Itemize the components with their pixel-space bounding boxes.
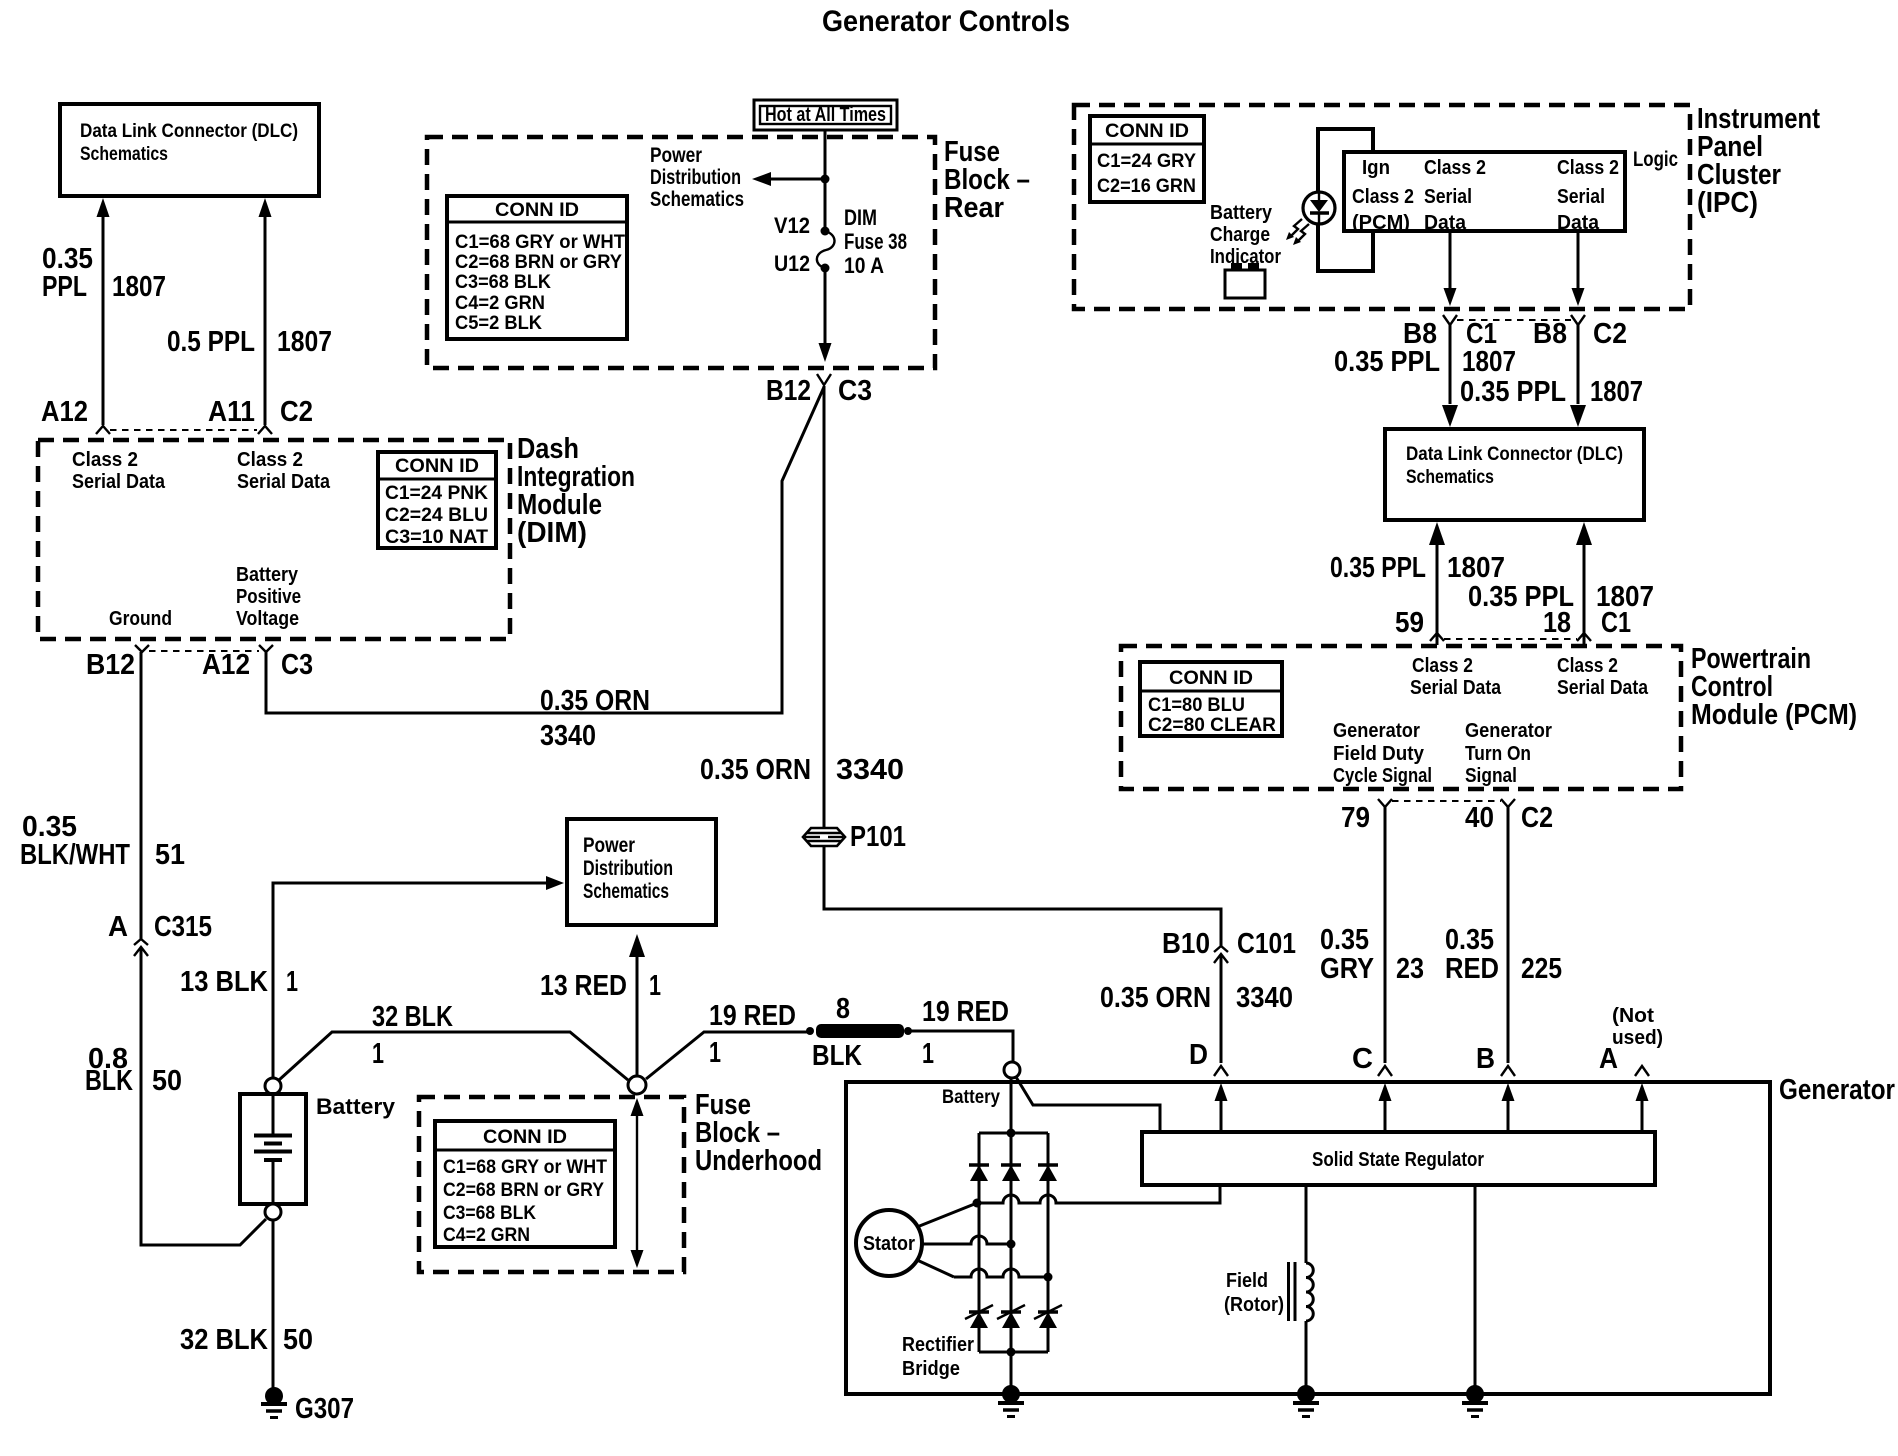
svg-text:40: 40 xyxy=(1465,802,1494,834)
svg-text:C1=68 GRY or WHT: C1=68 GRY or WHT xyxy=(443,1157,607,1178)
svg-text:(PCM): (PCM) xyxy=(1352,212,1410,234)
svg-text:Serial: Serial xyxy=(1557,186,1605,208)
svg-text:BLK: BLK xyxy=(85,1065,133,1097)
svg-text:V12: V12 xyxy=(774,213,810,238)
svg-text:C3=10 NAT: C3=10 NAT xyxy=(385,527,488,548)
svg-text:Class 2: Class 2 xyxy=(1412,655,1473,677)
svg-text:Battery: Battery xyxy=(942,1087,1000,1108)
node: generator battery terminal xyxy=(942,1062,1020,1108)
wire: 0.35 PPL 1807 down to DLC (C2) xyxy=(1570,325,1586,427)
svg-text:Rectifier: Rectifier xyxy=(902,1334,974,1356)
label: 13 RED 1 xyxy=(540,970,661,1002)
svg-text:Voltage: Voltage xyxy=(236,608,299,630)
wire: regulator to terminal A arrow (not used) xyxy=(1636,1083,1649,1132)
svg-text:Stator: Stator xyxy=(863,1233,915,1255)
label: 0.35 PPL 1807 (59 wire) xyxy=(1330,552,1505,584)
connector: B10 / C101 inline xyxy=(1162,928,1296,963)
table: IPC CONN ID xyxy=(1090,116,1204,202)
wire: IPC Class 2 serial data out (C2) xyxy=(1572,231,1585,306)
svg-text:Positive: Positive xyxy=(236,586,301,608)
svg-text:C3: C3 xyxy=(281,649,313,681)
diode: lower 3 (avalanche) xyxy=(1034,1305,1062,1328)
wire: Class 2 Serial Data, DIM A12 to DLC (0.35 PPL 1807) xyxy=(97,198,110,425)
svg-text:32 BLK: 32 BLK xyxy=(180,1324,268,1356)
node: battery negative terminal xyxy=(265,1204,281,1220)
svg-text:Data: Data xyxy=(1424,212,1467,234)
svg-text:A12: A12 xyxy=(41,396,88,428)
rectifier bridge: top bus xyxy=(979,1129,1048,1138)
ground: regulator to case xyxy=(1462,1385,1488,1417)
wire: battery feed from Hot at All Times into fuse xyxy=(824,130,827,229)
pin name: Battery Positive Voltage xyxy=(236,564,301,630)
svg-text:C2: C2 xyxy=(280,396,313,428)
svg-text:Serial Data: Serial Data xyxy=(1410,677,1502,699)
svg-text:CONN ID: CONN ID xyxy=(1105,121,1189,142)
node: battery positive terminal xyxy=(265,1078,281,1094)
label: 0.35 PPL 1807 (C2 wire) xyxy=(1460,376,1643,408)
svg-text:0.35 ORN: 0.35 ORN xyxy=(700,754,811,786)
svg-text:BLK: BLK xyxy=(812,1040,862,1072)
svg-text:C1=68 GRY or WHT: C1=68 GRY or WHT xyxy=(455,232,625,253)
svg-text:1: 1 xyxy=(372,1038,384,1070)
svg-text:Serial Data: Serial Data xyxy=(1557,677,1649,699)
wire: 0.35 RED 225 PCM 40 to generator B xyxy=(1507,807,1510,1063)
svg-text:Data Link Connector (DLC): Data Link Connector (DLC) xyxy=(80,121,298,142)
svg-text:1807: 1807 xyxy=(112,271,166,303)
svg-text:RED: RED xyxy=(1445,953,1499,985)
logic box: Ign Class 2 (PCM) / Class 2 Serial Data xyxy=(1344,152,1625,234)
svg-text:CONN ID: CONN ID xyxy=(483,1127,567,1148)
label: 0.35 PPL 1807 (18 wire) xyxy=(1468,581,1654,613)
svg-text:B: B xyxy=(1476,1043,1495,1075)
fusible link: 8 BLK xyxy=(806,993,912,1072)
module box: Fuse Block - Rear dashed xyxy=(427,137,935,368)
svg-text:Schematics: Schematics xyxy=(1406,467,1494,488)
svg-text:G307: G307 xyxy=(295,1393,354,1425)
rectifier bridge: bottom bus xyxy=(979,1348,1048,1357)
pin name: Class 2 Serial Data (59) xyxy=(1410,655,1502,699)
wire: stator phase 2 to rectifier xyxy=(922,1236,1016,1249)
wire: regulator to terminal D arrow xyxy=(1215,1083,1228,1132)
svg-text:C101: C101 xyxy=(1237,928,1296,960)
svg-text:C1=24 GRY: C1=24 GRY xyxy=(1097,151,1196,172)
svg-text:Turn On: Turn On xyxy=(1465,743,1531,765)
svg-text:Charge: Charge xyxy=(1210,224,1270,246)
label: 0.35 ORN / 3340 (DIM side) xyxy=(540,685,650,752)
svg-text:3340: 3340 xyxy=(836,754,904,786)
svg-text:Class 2: Class 2 xyxy=(1352,186,1414,208)
module box: Fuse Block - Underhood dashed xyxy=(419,1097,684,1272)
connector half: DIM pin A11/C2 chevron xyxy=(258,426,272,434)
svg-text:Generator: Generator xyxy=(1465,720,1552,742)
connector half: DIM pin A12/C3 fork xyxy=(259,645,273,652)
pin labels: B12, A12, C3 xyxy=(86,649,313,681)
svg-text:225: 225 xyxy=(1521,953,1562,985)
ground: G307 xyxy=(261,1387,354,1425)
wire: 0.35 PPL 1807 down to DLC (C1) xyxy=(1442,325,1458,427)
module box: Data Link Connector (DLC) Schematics (top-left) xyxy=(60,104,319,196)
LED: battery charge indicator lamp xyxy=(1303,192,1335,224)
svg-text:Fuse 38: Fuse 38 xyxy=(844,229,907,254)
label: 0.5 PPL / 1807 xyxy=(167,326,332,358)
diode: upper 1 xyxy=(969,1165,989,1181)
svg-text:19 RED: 19 RED xyxy=(922,996,1009,1028)
module box: Instrument Panel Cluster (IPC) dashed xyxy=(1074,105,1690,309)
wire: 32 BLK 50 battery negative to G307 xyxy=(272,1220,275,1388)
svg-text:C2: C2 xyxy=(1593,318,1627,350)
svg-text:0.35: 0.35 xyxy=(1320,924,1369,956)
diode: upper 2 xyxy=(1001,1165,1021,1181)
icon: battery charge indicator symbol xyxy=(1225,263,1265,298)
wire: arrow to Power Distribution Schematics (left) xyxy=(752,172,825,186)
svg-text:C2=24 BLU: C2=24 BLU xyxy=(385,505,488,526)
svg-text:0.35 ORN: 0.35 ORN xyxy=(1100,982,1211,1014)
svg-text:0.5 PPL: 0.5 PPL xyxy=(167,326,255,358)
svg-text:C3: C3 xyxy=(838,375,872,407)
connector link dashed B8C1-B8C2 xyxy=(1457,319,1571,321)
svg-text:13 BLK: 13 BLK xyxy=(180,966,268,998)
module box: Dash Integration Module (DIM) dashed xyxy=(38,440,510,639)
svg-text:Class 2: Class 2 xyxy=(237,449,303,471)
module box: Power Distribution Schematics xyxy=(567,819,716,925)
svg-text:Distribution: Distribution xyxy=(583,857,673,880)
svg-text:Solid State Regulator: Solid State Regulator xyxy=(1312,1149,1484,1171)
pin labels: D C B A at generator xyxy=(1189,1039,1618,1075)
table: PCM CONN ID xyxy=(1140,662,1282,736)
svg-text:19 RED: 19 RED xyxy=(709,1000,796,1032)
svg-text:Serial Data: Serial Data xyxy=(237,471,331,493)
svg-text:C: C xyxy=(1352,1043,1373,1075)
svg-text:Signal: Signal xyxy=(1465,765,1517,787)
svg-text:P101: P101 xyxy=(850,821,906,853)
svg-text:1: 1 xyxy=(286,966,298,998)
svg-text:U12: U12 xyxy=(774,251,810,276)
rectifier bridge: column 3 xyxy=(1047,1133,1050,1352)
connector: splice B12 / C3 xyxy=(766,374,872,407)
svg-text:(IPC): (IPC) xyxy=(1697,187,1758,219)
svg-text:Schematics: Schematics xyxy=(80,144,168,165)
connector link dashed 59-18 xyxy=(1444,638,1577,640)
svg-text:18: 18 xyxy=(1543,607,1571,639)
diode: lower 1 (avalanche) xyxy=(965,1305,993,1328)
svg-text:Schematics: Schematics xyxy=(650,188,744,211)
svg-text:59: 59 xyxy=(1395,607,1424,639)
wire: regulator to terminal C arrow xyxy=(1379,1083,1392,1132)
stator: Stator winding xyxy=(856,1210,922,1276)
svg-text:C1=24 PNK: C1=24 PNK xyxy=(385,483,488,504)
pin name: Class 2 Serial Data (A12) xyxy=(72,449,166,493)
svg-text:Power: Power xyxy=(650,144,702,167)
svg-text:C5=2 BLK: C5=2 BLK xyxy=(455,313,542,334)
icon: LED emission arrows xyxy=(1286,219,1309,245)
connector half: generator pin B chevron xyxy=(1501,1066,1515,1076)
svg-text:BLK/WHT: BLK/WHT xyxy=(20,839,130,871)
pin labels: B8 C1 B8 C2 xyxy=(1403,318,1627,350)
connector half: PCM pin 18/C1 chevron xyxy=(1577,633,1591,641)
connector half: DIM pin A12 chevron xyxy=(96,426,110,434)
battery: Battery xyxy=(240,1094,396,1204)
svg-text:A: A xyxy=(108,911,128,943)
label: 0.35 RED 225 xyxy=(1445,924,1562,985)
label: 32 BLK 50 xyxy=(180,1324,313,1356)
label: Instrument Panel Cluster (IPC) xyxy=(1697,103,1820,219)
svg-text:Bridge: Bridge xyxy=(902,1358,960,1380)
svg-text:Battery: Battery xyxy=(1210,202,1273,224)
label: Battery Charge Indicator xyxy=(1210,202,1281,268)
rectifier bridge: column 2 (battery feed) xyxy=(1010,1078,1013,1392)
svg-text:CONN ID: CONN ID xyxy=(395,456,479,477)
module box: Powertrain Control Module (PCM) dashed xyxy=(1121,646,1681,789)
svg-text:(Not: (Not xyxy=(1612,1005,1654,1027)
connector half: PCM pin 79 fork xyxy=(1378,799,1392,807)
svg-text:0.35 ORN: 0.35 ORN xyxy=(540,685,650,717)
svg-text:Class 2: Class 2 xyxy=(72,449,138,471)
svg-text:D: D xyxy=(1189,1039,1208,1071)
wire: fuse output down to B12/C3 xyxy=(819,268,832,362)
svg-text:CONN ID: CONN ID xyxy=(1169,668,1253,689)
wire: regulator ground leg xyxy=(1474,1185,1477,1392)
svg-text:GRY: GRY xyxy=(1320,953,1374,985)
connector half: PCM pin 59 chevron xyxy=(1430,633,1444,641)
svg-text:Indicator: Indicator xyxy=(1210,246,1281,268)
wire: 0.35 BLK/WHT 51 from DIM B12 ground xyxy=(140,652,143,939)
svg-text:0.35 PPL: 0.35 PPL xyxy=(1330,552,1426,584)
svg-text:79: 79 xyxy=(1341,802,1370,834)
svg-text:Battery: Battery xyxy=(236,564,299,586)
svg-text:C1: C1 xyxy=(1601,607,1631,639)
svg-text:C2=80 CLEAR: C2=80 CLEAR xyxy=(1148,715,1276,736)
connector link dashed 79-40 xyxy=(1392,800,1501,802)
svg-text:1807: 1807 xyxy=(1447,552,1505,584)
label: Fuse Block - Rear xyxy=(944,136,1030,224)
svg-text:(Rotor): (Rotor) xyxy=(1224,1294,1284,1316)
svg-text:Ground: Ground xyxy=(109,608,172,630)
pin labels: 59, 18, C1 xyxy=(1395,607,1631,639)
svg-text:8: 8 xyxy=(836,993,850,1025)
svg-text:1: 1 xyxy=(922,1038,934,1070)
SECTION-TITLE xyxy=(822,5,1070,38)
rectifier bridge: column 1 xyxy=(978,1133,981,1352)
pin labels: 79, 40, C2 xyxy=(1341,802,1553,834)
svg-text:B12: B12 xyxy=(766,375,811,407)
pin name: Generator Turn On Signal xyxy=(1465,720,1552,787)
svg-text:Power: Power xyxy=(583,834,635,857)
label: 13 BLK 1 xyxy=(180,966,298,998)
svg-text:Ign: Ign xyxy=(1362,157,1390,179)
wire: IPC Class 2 serial data out (C1) xyxy=(1444,231,1457,306)
label: 19 RED 1 (right) xyxy=(922,996,1009,1070)
wire: stator phase 1 to rectifier and regulator xyxy=(917,1187,1220,1227)
svg-text:Logic: Logic xyxy=(1633,148,1678,171)
svg-text:B12: B12 xyxy=(86,649,135,681)
wire: 0.35 ORN 3340 from C101 to generator D xyxy=(1220,954,1223,1063)
svg-text:PPL: PPL xyxy=(42,271,87,303)
svg-text:C4=2 GRN: C4=2 GRN xyxy=(443,1225,530,1246)
svg-text:3340: 3340 xyxy=(540,720,596,752)
pin name: Generator Field Duty Cycle Signal xyxy=(1333,720,1432,787)
label: 0.35 PPL 1807 (C1 wire) xyxy=(1334,346,1516,378)
svg-text:0.35 PPL: 0.35 PPL xyxy=(1334,346,1440,378)
svg-text:10 A: 10 A xyxy=(844,253,884,278)
fuse: DIM Fuse 38 10 A xyxy=(774,205,907,278)
svg-text:Generator Controls: Generator Controls xyxy=(822,5,1070,38)
svg-text:C315: C315 xyxy=(154,911,212,943)
wire: stator phase 3 to rectifier xyxy=(917,1260,1053,1282)
wire: 13 BLK 1 battery positive to power distribution xyxy=(273,876,564,1078)
diode: lower 2 (avalanche) xyxy=(997,1305,1025,1328)
svg-text:C2=68 BRN or GRY: C2=68 BRN or GRY xyxy=(443,1180,604,1201)
wire: Class 2 Serial Data, DIM A11 to DLC (0.5 PPL 1807) xyxy=(259,198,272,425)
label: 0.35 BLK/WHT 51 xyxy=(20,811,185,871)
module box: Generator xyxy=(846,1074,1895,1394)
svg-text:Battery: Battery xyxy=(316,1094,396,1119)
svg-text:0.35: 0.35 xyxy=(1445,924,1494,956)
label: Fuse Block - Underhood xyxy=(695,1089,822,1177)
wire: 0.35 ORN from P101 to C101 xyxy=(824,846,1221,946)
connector link dashed A12-A11 xyxy=(110,429,257,431)
svg-text:23: 23 xyxy=(1396,953,1424,985)
inductor: Field (Rotor) winding xyxy=(1224,1185,1313,1392)
label: 19 RED 1 (left) xyxy=(709,1000,796,1069)
pin name: Class 2 Serial Data (A11) xyxy=(237,449,331,493)
svg-text:A11: A11 xyxy=(208,396,255,428)
wire: 0.8 BLK 50 from C315 to battery negative xyxy=(141,947,266,1245)
svg-text:Rear: Rear xyxy=(944,192,1004,224)
connector: A / C315 inline xyxy=(108,911,212,956)
label: 0.35 PPL / 1807 xyxy=(42,243,166,303)
svg-text:C3=68 BLK: C3=68 BLK xyxy=(443,1203,536,1224)
connector half: PCM pin 40/C2 fork xyxy=(1501,799,1515,807)
svg-text:C3=68 BLK: C3=68 BLK xyxy=(455,272,551,293)
svg-text:CONN ID: CONN ID xyxy=(495,200,579,221)
svg-text:Field Duty: Field Duty xyxy=(1333,743,1425,765)
table: Fuse Block Underhood CONN ID xyxy=(435,1121,615,1247)
svg-text:A12: A12 xyxy=(202,649,250,681)
connector half: generator pin A chevron xyxy=(1635,1066,1649,1076)
svg-text:B10: B10 xyxy=(1162,928,1210,960)
label: Rectifier Bridge xyxy=(902,1334,974,1380)
svg-text:C4=2 GRN: C4=2 GRN xyxy=(455,293,545,314)
svg-text:Class 2: Class 2 xyxy=(1557,655,1618,677)
svg-text:Field: Field xyxy=(1226,1270,1268,1292)
svg-text:Hot at All Times: Hot at All Times xyxy=(765,104,886,126)
svg-text:50: 50 xyxy=(283,1324,313,1356)
svg-text:DIM: DIM xyxy=(844,205,877,230)
label: Dash Integration Module (DIM) xyxy=(517,433,635,549)
svg-text:0.35 PPL: 0.35 PPL xyxy=(1460,376,1566,408)
label: Logic xyxy=(1633,148,1678,171)
svg-text:Data Link Connector (DLC): Data Link Connector (DLC) xyxy=(1406,444,1623,465)
wire: battery node to regulator xyxy=(1016,1077,1160,1131)
wire: 0.35 GRY 23 PCM 79 to generator C xyxy=(1384,807,1387,1063)
label: 0.35 ORN 3340 (C101) xyxy=(1100,982,1293,1014)
connector half: generator pin D chevron xyxy=(1214,1066,1228,1076)
wire: 0.35 PPL 1807 PCM 59 up to DLC xyxy=(1429,522,1445,645)
svg-text:Serial: Serial xyxy=(1424,186,1472,208)
label: 0.8 BLK 50 xyxy=(85,1043,182,1097)
svg-text:used): used) xyxy=(1612,1027,1663,1049)
svg-text:C2: C2 xyxy=(1521,802,1553,834)
table: DIM CONN ID xyxy=(378,452,496,548)
wire: indicator loop rectangle xyxy=(1318,129,1373,271)
connector half: IPC pin B8/C1 fork xyxy=(1443,315,1457,325)
wire: regulator to terminal B arrow xyxy=(1502,1083,1515,1132)
label: 32 BLK 1 xyxy=(372,1001,453,1070)
svg-text:Module (PCM): Module (PCM) xyxy=(1691,699,1857,731)
svg-text:Distribution: Distribution xyxy=(650,166,741,189)
table: Fuse Block Rear CONN ID xyxy=(447,196,627,339)
svg-text:32 BLK: 32 BLK xyxy=(372,1001,453,1033)
regulator box: Solid State Regulator xyxy=(1142,1132,1655,1185)
connector half: DIM pin B12 fork xyxy=(135,645,149,652)
label: 0.35 ORN / 3340 (above P101) xyxy=(700,754,904,786)
svg-text:Underhood: Underhood xyxy=(695,1145,822,1177)
wire: 0.35 ORN 3340 from DIM C3 to B12/C3 splice xyxy=(266,387,824,713)
wire: 32 BLK 1 battery positive to fuse block node xyxy=(279,1032,628,1080)
label: (Not used) xyxy=(1612,1005,1663,1049)
svg-text:Generator: Generator xyxy=(1333,720,1420,742)
wire: 13 RED 1 fuse block to power distribution xyxy=(629,934,645,1076)
connector half: IPC pin B8/C2 fork xyxy=(1571,315,1585,325)
ground: rectifier to case xyxy=(998,1385,1024,1417)
svg-text:13 RED: 13 RED xyxy=(540,970,627,1002)
grommet: P101 xyxy=(803,821,906,853)
wire: double arrow through fuse block underhood xyxy=(631,1098,644,1268)
connector half: generator pin C chevron xyxy=(1378,1066,1392,1076)
pin name: Ground xyxy=(109,608,172,630)
svg-text:C2=68 BRN or GRY: C2=68 BRN or GRY xyxy=(455,252,622,273)
svg-text:50: 50 xyxy=(152,1065,182,1097)
svg-text:3340: 3340 xyxy=(1236,982,1293,1014)
connector link dashed B12-A12 xyxy=(149,650,259,652)
wire: 19 RED 1 node to fusible link xyxy=(646,1032,807,1079)
svg-text:Cycle Signal: Cycle Signal xyxy=(1333,765,1432,787)
svg-text:C1=80 BLU: C1=80 BLU xyxy=(1148,695,1245,716)
wire: 0.35 ORN 3340 vertical to P101 xyxy=(823,386,826,828)
node: fuse block underhood junction xyxy=(628,1076,646,1094)
diode: upper 3 xyxy=(1038,1165,1058,1181)
svg-text:1807: 1807 xyxy=(1462,346,1516,378)
svg-text:1: 1 xyxy=(709,1037,721,1069)
svg-text:1807: 1807 xyxy=(1590,376,1643,408)
svg-text:Generator: Generator xyxy=(1779,1074,1895,1106)
label: Power Distribution Schematics (fuse block) xyxy=(650,144,744,211)
svg-text:51: 51 xyxy=(155,839,185,871)
ground: field winding to case xyxy=(1293,1385,1319,1417)
svg-text:Schematics: Schematics xyxy=(583,880,669,903)
svg-text:Serial Data: Serial Data xyxy=(72,471,166,493)
pin name: Class 2 Serial Data (18) xyxy=(1557,655,1649,699)
label: 0.35 GRY 23 xyxy=(1320,924,1424,985)
svg-text:Class 2: Class 2 xyxy=(1557,157,1619,179)
svg-text:(DIM): (DIM) xyxy=(517,517,587,549)
svg-text:Data: Data xyxy=(1557,212,1600,234)
power flag: Hot at All Times xyxy=(754,100,897,130)
module box: Data Link Connector (DLC) Schematics (right) xyxy=(1385,429,1644,520)
label: Powertrain Control Module (PCM) xyxy=(1691,643,1857,731)
svg-text:A: A xyxy=(1599,1043,1618,1075)
node: tap to power distribution xyxy=(821,175,830,184)
svg-text:B8: B8 xyxy=(1533,318,1567,350)
svg-text:1: 1 xyxy=(649,970,661,1002)
wire: 0.35 PPL 1807 PCM 18/C1 up to DLC xyxy=(1576,522,1592,645)
svg-text:Class 2: Class 2 xyxy=(1424,157,1486,179)
wire: 19 RED 1 fusible link to generator battery node xyxy=(908,1031,1013,1062)
pin labels: A12, A11, C2 xyxy=(41,396,313,428)
svg-text:1807: 1807 xyxy=(277,326,332,358)
svg-text:C2=16 GRN: C2=16 GRN xyxy=(1097,176,1196,197)
